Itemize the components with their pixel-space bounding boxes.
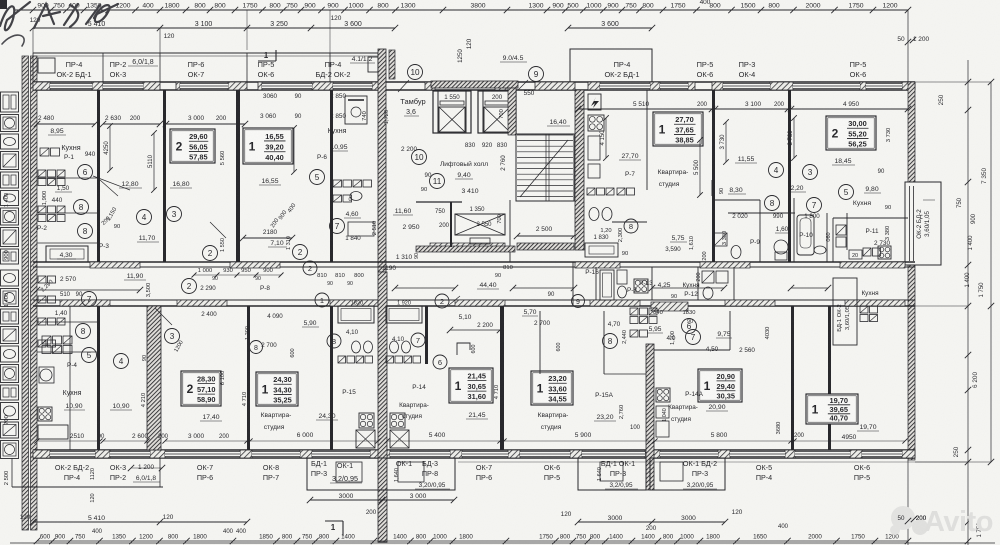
bath P-10	[797, 215, 814, 255]
bathroom partitions	[728, 212, 795, 214]
scan noise overlay	[0, 0, 1, 1]
wall right of bath block	[425, 306, 428, 364]
apartment 1 (16,55)	[243, 128, 293, 164]
stairs	[516, 134, 574, 201]
Avito watermark	[891, 506, 915, 530]
apt 20,90	[698, 369, 742, 402]
bath tub 4,30	[46, 246, 88, 262]
left loggia below bottom wall	[12, 486, 163, 488]
right exterior wall	[908, 82, 915, 182]
main top exterior wall	[33, 81, 915, 83]
hatch boxes under stoves	[356, 430, 375, 448]
toilet P-9	[774, 240, 788, 254]
lift shafts	[431, 81, 518, 88]
hatched chunks on corridor walls	[90, 262, 140, 268]
apt 23,20	[531, 371, 573, 405]
left exterior double hatched wall	[22, 56, 29, 530]
left section edge fixtures column	[1, 92, 19, 112]
corridor bathroom blocks (center-right)	[595, 267, 597, 300]
core right hatched wall	[575, 90, 584, 250]
bottom dims row A (balcony)	[310, 499, 454, 501]
bottom dims row B	[33, 521, 247, 523]
loggia front line top	[33, 52, 378, 54]
room width dim lines above bottom wall	[37, 440, 100, 442]
interior vertical walls bottom band	[97, 306, 100, 450]
corridor center dim lines	[395, 287, 455, 289]
loggia top right over entrance	[570, 49, 652, 82]
right lower loggia	[833, 278, 857, 345]
right vertical dims	[967, 60, 969, 545]
shower boxes	[836, 225, 846, 235]
apartment info box 2	[170, 129, 215, 163]
top dimension chain row 2	[33, 27, 395, 29]
fixtures left apartment	[40, 148, 49, 156]
scan handwriting top-left	[0, 2, 118, 30]
small box 4.1/1.2	[368, 57, 385, 72]
bottom balconies	[307, 458, 455, 490]
small box top-left loggia	[38, 58, 55, 73]
bottom exterior wall	[33, 449, 915, 451]
central gas stoves (flank mullion, near bottom)	[359, 413, 374, 428]
interior vertical walls top band	[97, 90, 100, 262]
corridor walls	[33, 261, 915, 263]
bottom chain row C	[10, 542, 995, 544]
partition walls around bathrooms top right	[759, 200, 761, 262]
core lower walls	[509, 200, 511, 262]
apartment 2 (30,00)	[826, 116, 876, 150]
apt 19,70	[806, 394, 858, 424]
top dimension chain row 1	[15, 9, 908, 11]
right balcony upper	[905, 182, 941, 265]
door diagonals	[100, 180, 118, 196]
